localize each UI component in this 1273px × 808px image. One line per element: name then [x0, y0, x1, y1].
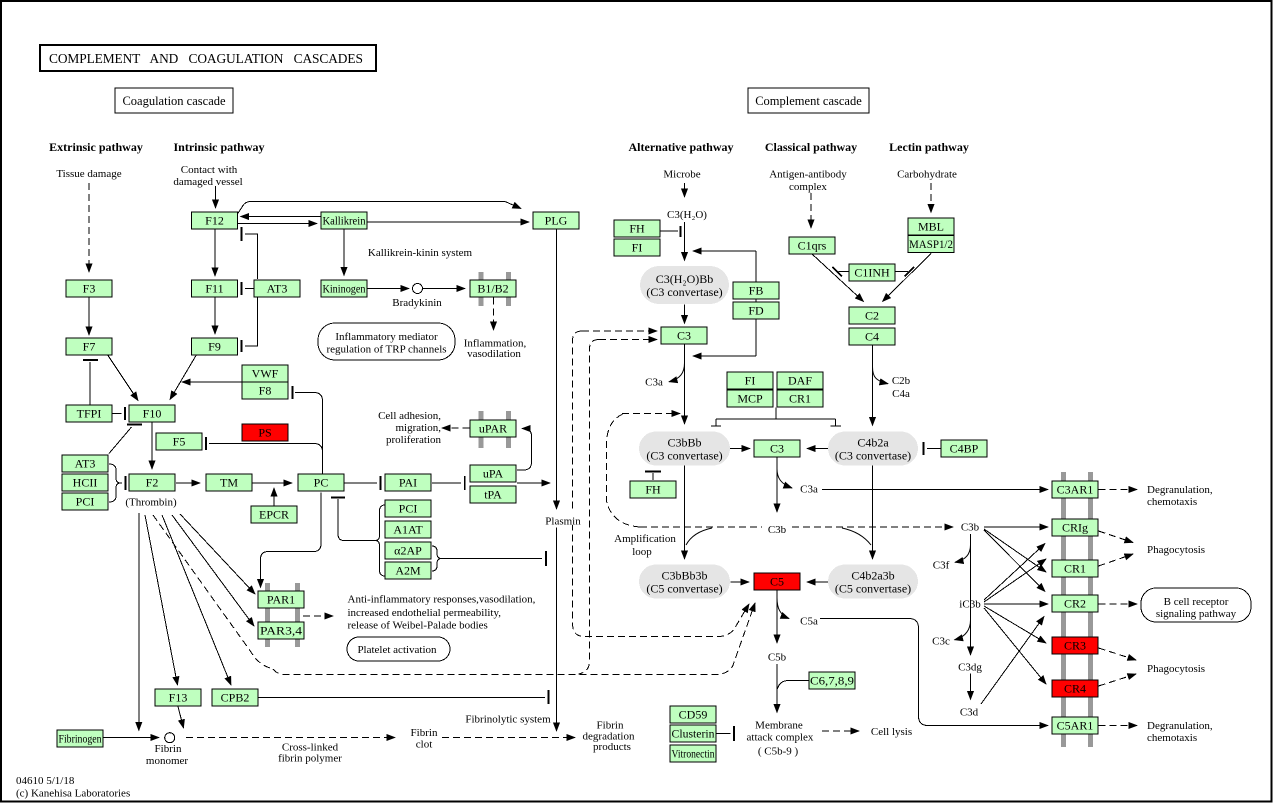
- label complex: [789, 181, 827, 193]
- label Complement cascade: [748, 88, 869, 113]
- label Fibrin (clot): [411, 727, 438, 739]
- svg-text:(C5 convertase): (C5 convertase): [835, 582, 911, 596]
- wire C3bBb3b to C5: [731, 581, 750, 583]
- inhibition PAI to uPA/tPA: [432, 476, 465, 490]
- box CPB2: [212, 689, 258, 706]
- wire carbohydrate to MBL (dashed): [930, 183, 932, 213]
- wire C3b to iC3b column (dashed): [792, 526, 953, 528]
- label C3b label: [768, 524, 787, 536]
- svg-text:Plasmin: Plasmin: [545, 516, 581, 528]
- wire C3b amplification arc (dashed): [607, 414, 641, 527]
- svg-text:Kallikrein-kinin system: Kallikrein-kinin system: [368, 247, 473, 259]
- wire C6,7,8,9 to C5b line: [778, 681, 810, 690]
- wire F3 to F7: [88, 298, 90, 336]
- wire iC3b to CR4: [984, 608, 1046, 684]
- svg-text:AT3: AT3: [267, 282, 288, 296]
- box PCI left: [62, 493, 108, 510]
- svg-text:C3f: C3f: [933, 560, 950, 572]
- wire iC3b to CRIg: [984, 544, 1045, 601]
- wire PLG to plasmin: [556, 230, 558, 510]
- svg-text:Cell adhesion,: Cell adhesion,: [378, 410, 441, 422]
- svg-text:C4a: C4a: [892, 388, 910, 400]
- label Classical pathway: [765, 140, 857, 154]
- box tPA: [470, 486, 516, 503]
- box C3 alt: [661, 327, 707, 344]
- svg-text:F5: F5: [173, 435, 186, 449]
- box Kininogen: [321, 280, 367, 297]
- box CR1 receptor: [1052, 560, 1098, 577]
- box F12: [192, 212, 238, 229]
- box HCII: [62, 474, 108, 491]
- box C6,7,8,9: [809, 672, 855, 689]
- svg-text:attack complex: attack complex: [747, 732, 814, 744]
- wire FB/FD to C3b line: [693, 355, 756, 357]
- label monomer: [146, 755, 188, 767]
- wire iC3b to C3f: [955, 545, 971, 562]
- svg-text:F2: F2: [146, 476, 159, 490]
- wire F12 to Kallikrein: [238, 223, 317, 225]
- box C4BP: [941, 440, 987, 457]
- box VWF: [242, 365, 288, 382]
- svg-text:monomer: monomer: [146, 755, 188, 767]
- label Degranulation 1a: [1147, 484, 1213, 496]
- box B1/B2 redraw: [470, 280, 516, 297]
- svg-text:FH: FH: [629, 222, 645, 236]
- svg-text:regulation of TRP channels: regulation of TRP channels: [326, 344, 446, 356]
- wire Kallikrein to Kininogen: [343, 230, 345, 276]
- note Platelet activation: [347, 637, 450, 661]
- box F10: [129, 405, 175, 422]
- box PAR3,4: [258, 622, 304, 639]
- svg-text:complex: complex: [789, 181, 827, 193]
- wire uPA/tPA to PLG-plasmin: [517, 482, 550, 484]
- label Alternative pathway: [629, 140, 734, 154]
- svg-text:C4BP: C4BP: [950, 442, 979, 456]
- wire C4 to C4b2a: [872, 346, 874, 426]
- svg-text:Microbe: Microbe: [663, 169, 700, 181]
- wire bradykinin to B1/B2: [423, 288, 465, 290]
- svg-text:C3: C3: [770, 442, 784, 456]
- box C3 mid: [754, 440, 800, 457]
- wire C3b join right: [842, 528, 871, 545]
- label C3a classical: [800, 484, 818, 496]
- box C4: [849, 328, 895, 345]
- svg-text:( C5b-9 ): ( C5b-9 ): [758, 746, 799, 758]
- svg-text:release of Weibel-Palade bodie: release of Weibel-Palade bodies: [348, 620, 488, 632]
- svg-text:F13: F13: [169, 691, 188, 705]
- box CR4: [1052, 680, 1098, 697]
- label Inflammation,: [464, 338, 527, 350]
- wire crosstalk A (dashed): [573, 331, 750, 637]
- wire TM to PC: [253, 482, 293, 484]
- svg-text:vasodilation: vasodilation: [467, 348, 521, 360]
- box AT3 lower: [62, 455, 108, 472]
- wire C3 to C3b: [776, 458, 778, 513]
- label C3d: [960, 707, 979, 719]
- label Fibrin (monomer): [155, 743, 182, 755]
- wire uPAR to cell adhesion (dashed): [442, 427, 470, 429]
- svg-text:C2: C2: [865, 309, 879, 323]
- svg-text:CPB2: CPB2: [221, 691, 250, 705]
- box DAF: [777, 372, 823, 389]
- wire PAR to anti-inflammatory (dashed): [303, 615, 333, 617]
- wire iC3b to CR3: [984, 606, 1046, 643]
- wire C3b to CR1: [984, 529, 1046, 572]
- box PAI: [385, 474, 431, 491]
- label Phagocytosis 1: [1147, 544, 1205, 556]
- svg-text:PAR3,4: PAR3,4: [260, 624, 302, 638]
- svg-text:C3AR1: C3AR1: [1057, 483, 1094, 497]
- box F11: [192, 280, 238, 297]
- svg-text:chemotaxis: chemotaxis: [1147, 732, 1197, 744]
- wire fibrin monomer to fibrin clot (dashed): [186, 737, 395, 739]
- box Fibrinogen: [57, 730, 103, 747]
- inhibition FH to C3bBb: [645, 472, 661, 481]
- svg-text:Kallikrein: Kallikrein: [323, 214, 366, 228]
- wire crosstalk B to C5 (dashed): [273, 603, 755, 675]
- label C5a: [800, 616, 818, 628]
- inhibition AT3/HCII/PCI to F2: [121, 476, 126, 490]
- label Cell lysis: [871, 726, 912, 738]
- wire VWF/F8 to F9-F10 reaction: [182, 381, 242, 383]
- label Coagulation cascade: [115, 88, 233, 113]
- wire F11 to F9: [214, 298, 216, 335]
- svg-text:CR2: CR2: [1064, 597, 1086, 611]
- wire C3b left segment (dashed): [640, 526, 762, 528]
- svg-text:Lectin pathway: Lectin pathway: [889, 140, 969, 154]
- wire C3(H2O) to C3(H2O)Bb: [684, 222, 686, 261]
- box MBL: [908, 218, 954, 235]
- svg-text:A1AT: A1AT: [393, 523, 423, 537]
- label Kallikrein-kinin system: [368, 247, 473, 259]
- label C3a alt: [645, 377, 663, 389]
- box C3AR1: [1052, 481, 1098, 498]
- box a2AP: [385, 542, 431, 559]
- svg-text:uPAR: uPAR: [479, 422, 507, 436]
- wire C5b to MAC: [776, 664, 778, 713]
- svg-text:(c) Kanehisa Laboratories: (c) Kanehisa Laboratories: [16, 788, 130, 800]
- wire crosstalk B (dashed): [579, 340, 600, 675]
- wire C3 to C3bBb: [684, 345, 686, 425]
- label Cross-linked: [282, 742, 339, 754]
- label map number: [16, 775, 75, 787]
- label products: [593, 741, 631, 753]
- svg-text:PCI: PCI: [399, 502, 418, 516]
- wire C3b to CR2: [984, 530, 1045, 592]
- box MASP1/2: [908, 236, 954, 253]
- wire C4 to C2b/C4a: [873, 367, 889, 384]
- svg-text:COMPLEMENT AND COAGULATION: COMPLEMENT AND COAGULATION CASCADES: [49, 51, 364, 66]
- svg-text:Fibrin: Fibrin: [155, 743, 182, 755]
- wire C3b to CRIg: [984, 526, 1048, 528]
- box PCI mid: [385, 500, 431, 517]
- wire crosstalk B to C3 (dashed): [599, 339, 657, 341]
- wire C3(H2O)Bb to C3: [684, 305, 686, 324]
- wire C4b2a to C4b2a3b: [872, 466, 874, 560]
- svg-text:Antigen-antibody: Antigen-antibody: [769, 169, 847, 181]
- svg-text:C1INH: C1INH: [854, 266, 890, 280]
- svg-text:FI: FI: [632, 241, 643, 255]
- svg-text:04610 5/1/18: 04610 5/1/18: [16, 775, 75, 787]
- note Inflammatory mediator regulation of TRP channels: [318, 323, 455, 360]
- box CR1 inhib: [777, 390, 823, 407]
- svg-text:C4b2a: C4b2a: [857, 436, 889, 450]
- inhibition AT3 to F9: [242, 298, 258, 353]
- membrane rail PAR left: [265, 583, 270, 647]
- svg-text:Degranulation,: Degranulation,: [1147, 720, 1213, 732]
- wire iC3b to CR2: [984, 603, 1048, 605]
- inhibition TFPI to F7: [83, 360, 98, 405]
- inhibition PC to PAI: [345, 476, 381, 490]
- svg-text:VWF: VWF: [252, 367, 279, 381]
- box MCP: [727, 390, 773, 407]
- wire thrombin to fibrin: [138, 513, 140, 731]
- box CD59: [670, 706, 716, 723]
- wire iC3b to CR1: [984, 559, 1046, 602]
- wire F7 to F10: [108, 356, 138, 401]
- box F8: [242, 382, 288, 399]
- box CR2: [1052, 595, 1098, 612]
- inhibition FH/FI to C3(H2O): [661, 226, 681, 237]
- wire CR1 to phagocytosis (dashed): [1099, 554, 1134, 566]
- svg-text:C3dg: C3dg: [958, 662, 982, 674]
- inhibition APC to F8: [293, 386, 323, 476]
- box FH lower: [630, 481, 676, 498]
- svg-text:PLG: PLG: [545, 214, 568, 228]
- label C3dg: [958, 662, 982, 674]
- label C3b right: [961, 522, 980, 534]
- svg-text:Anti-inflammatory responses,va: Anti-inflammatory responses,vasodilation…: [348, 594, 536, 606]
- wire C3AR1 to degranulation (dashed): [1099, 489, 1138, 491]
- wire antigen complex to C1qrs (dashed): [810, 193, 812, 228]
- svg-text:Vitronectin: Vitronectin: [672, 747, 715, 761]
- label C5b: [768, 652, 787, 664]
- svg-text:proliferation: proliferation: [386, 434, 441, 446]
- wire F2 to TM: [176, 482, 200, 484]
- label Contact with: [181, 164, 238, 176]
- label Cell adhesion,: [378, 410, 441, 422]
- label C4a: [892, 388, 910, 400]
- svg-text:Amplification: Amplification: [614, 533, 676, 545]
- inhibition AT3 to F10: [109, 425, 142, 454]
- membrane rail B1/B2 right: [506, 272, 511, 306]
- label proliferation: [386, 434, 441, 446]
- box C5: [754, 573, 800, 590]
- box FH upper: [614, 220, 660, 237]
- wire C5 to C5b: [776, 591, 778, 644]
- label Degranulation 2b: [1147, 732, 1197, 744]
- svg-text:(Thrombin): (Thrombin): [125, 497, 177, 509]
- label Degranulation 1b: [1147, 496, 1197, 508]
- svg-text:DAF: DAF: [788, 374, 812, 388]
- box F2: [129, 474, 175, 491]
- node fibrin monomer: [165, 733, 175, 743]
- wire thrombin to CPB2: [162, 515, 231, 685]
- box A1AT: [385, 521, 431, 538]
- box F13: [155, 689, 201, 706]
- svg-text:Coagulation cascade: Coagulation cascade: [122, 94, 226, 108]
- box C5AR1: [1052, 717, 1098, 734]
- inhibition a2AP/A2M to plasmin: [441, 551, 546, 566]
- inhibition Clusterin to MAC: [717, 726, 735, 741]
- wire C3a to C3AR1: [822, 489, 1048, 491]
- node bradykinin: [413, 284, 423, 294]
- wire Kallikrein to F12: [241, 216, 321, 218]
- svg-text:B cell receptor: B cell receptor: [1164, 596, 1229, 608]
- wire C3 to C3a: [669, 363, 685, 382]
- svg-text:Phagocytosis: Phagocytosis: [1147, 663, 1205, 675]
- svg-text:(C3 convertase): (C3 convertase): [835, 449, 911, 463]
- box PS: [242, 424, 288, 441]
- wire iC3b to C3c: [955, 620, 971, 640]
- svg-text:Intrinsic pathway: Intrinsic pathway: [173, 140, 264, 154]
- bracket PCI/A1AT/a2AP/A2M: [376, 505, 386, 576]
- svg-text:C3: C3: [677, 329, 691, 343]
- membrane rail membrane right: [1088, 472, 1093, 747]
- box PLG: [533, 212, 579, 229]
- svg-text:Membrane: Membrane: [755, 720, 803, 732]
- box TM: [206, 474, 252, 491]
- bracket FI/DAF/MCP/CR1 inhibitors: [711, 408, 841, 427]
- svg-text:FB: FB: [749, 284, 764, 298]
- svg-text:Complement cascade: Complement cascade: [755, 94, 862, 108]
- complex C3(H2O)Bb convertase: [640, 266, 729, 304]
- svg-text:CR4: CR4: [1064, 682, 1086, 696]
- note B cell receptor signaling pathway: [1141, 588, 1251, 622]
- box A2M: [385, 562, 431, 579]
- wire thrombin to F13: [145, 515, 178, 685]
- svg-text:C3c: C3c: [932, 636, 950, 648]
- svg-text:C1qrs: C1qrs: [798, 239, 827, 253]
- label iC3b: [959, 599, 981, 611]
- box FI upper: [614, 239, 660, 256]
- svg-text:Clusterin: Clusterin: [672, 727, 715, 741]
- label fibrin polymer: [278, 753, 342, 765]
- svg-text:products: products: [593, 741, 631, 753]
- svg-text:C4: C4: [865, 330, 879, 344]
- svg-text:C3b: C3b: [768, 524, 787, 536]
- label Phagocytosis 2: [1147, 663, 1205, 675]
- label degradation: [583, 731, 635, 743]
- box uPAR: [470, 420, 516, 437]
- wire MAC to cell lysis (dashed): [822, 730, 859, 732]
- label anti-inflammatory line2: [348, 607, 502, 619]
- wire tissue-damage to F3 (dashed): [88, 183, 90, 272]
- inhibition C4BP to C4b2a: [924, 442, 942, 455]
- box F5: [156, 433, 202, 450]
- wire C3b join left: [686, 528, 712, 545]
- svg-text:A2M: A2M: [395, 564, 421, 578]
- svg-text:Fibrinogen: Fibrinogen: [59, 732, 102, 746]
- svg-text:F8: F8: [259, 384, 272, 398]
- label Membrane: [755, 720, 803, 732]
- wire Fibrinogen to fibrin monomer: [104, 737, 160, 739]
- svg-text:CR1: CR1: [789, 392, 811, 406]
- svg-text:MASP1/2: MASP1/2: [909, 237, 953, 251]
- box Clusterin: [670, 725, 716, 742]
- label Fibrinolytic system: [465, 714, 551, 726]
- wire F10 to F2: [151, 423, 153, 470]
- svg-text:F7: F7: [83, 340, 96, 354]
- wire fibrin clot to degradation (dashed): [442, 737, 575, 739]
- svg-text:C6,7,8,9: C6,7,8,9: [810, 674, 854, 688]
- svg-text:PAR1: PAR1: [267, 593, 295, 607]
- wire C3b to iC3b: [970, 534, 972, 655]
- svg-text:Fibrinolytic system: Fibrinolytic system: [465, 714, 551, 726]
- label attack complex: [747, 732, 814, 744]
- label Microbe: [663, 169, 700, 181]
- svg-text:tPA: tPA: [484, 488, 502, 502]
- inhibition AT3 to F11: [242, 282, 255, 295]
- wire F12 to F11: [214, 230, 216, 277]
- svg-text:Kininogen: Kininogen: [323, 282, 366, 296]
- wire B1/B2 to inflammation (dashed): [493, 298, 495, 331]
- svg-text:(C3 convertase): (C3 convertase): [646, 449, 722, 463]
- svg-text:C5a: C5a: [800, 616, 818, 628]
- label Bradykinin: [392, 297, 442, 309]
- label Tissue damage: [56, 168, 121, 180]
- svg-text:(C5 convertase): (C5 convertase): [646, 582, 722, 596]
- membrane rail uPAR right: [506, 411, 511, 448]
- svg-text:FI: FI: [745, 374, 756, 388]
- bracket AT3/HCII/PCI: [109, 464, 121, 502]
- wire C1qrs to C2: [812, 254, 864, 302]
- svg-text:migration,: migration,: [395, 422, 441, 434]
- membrane rail uPAR left: [479, 411, 484, 448]
- svg-text:FH: FH: [645, 483, 661, 497]
- wire C4b2a3b to C5: [807, 581, 828, 583]
- wire MASP to C2: [883, 254, 932, 302]
- svg-text:Contact with: Contact with: [181, 164, 238, 176]
- svg-text:Alternative pathway: Alternative pathway: [629, 140, 734, 154]
- box C1qrs: [789, 237, 835, 254]
- wire thrombin to PAR1: [180, 514, 255, 594]
- label anti-inflammatory line1: [348, 594, 536, 606]
- box TFPI: [66, 405, 112, 422]
- svg-text:C3d: C3d: [960, 707, 979, 719]
- wire FB/FD to C3(H2O) line: [693, 250, 756, 252]
- wire contact to F12: [215, 186, 217, 208]
- label Fibrin (degradation): [597, 720, 624, 732]
- label C3f: [933, 560, 950, 572]
- label C2b: [892, 375, 911, 387]
- wire C3 to C3a right: [777, 469, 792, 488]
- svg-text:Bradykinin: Bradykinin: [392, 297, 442, 309]
- wire PC to PAR1: [261, 493, 322, 588]
- wire thrombin to PAR3,4: [172, 515, 254, 626]
- svg-text:C3a: C3a: [800, 484, 818, 496]
- label vasodilation: [467, 348, 521, 360]
- wire C4b2a to C3 mid: [807, 448, 828, 450]
- svg-text:C3(H₂O): C3(H₂O): [667, 209, 707, 221]
- wire iC3b to C3dg: [970, 674, 972, 700]
- complex C3bBb3b convertase: [639, 565, 730, 599]
- svg-text:uPA: uPA: [483, 467, 504, 481]
- wire FB/FD stem: [755, 251, 757, 356]
- svg-text:Inflammatory mediator: Inflammatory mediator: [335, 331, 438, 343]
- inhibition APC to F5: [206, 437, 323, 452]
- box uPA: [470, 465, 516, 482]
- svg-text:CR3: CR3: [1064, 639, 1086, 653]
- svg-text:(C3 convertase): (C3 convertase): [646, 285, 722, 299]
- svg-text:damaged vessel: damaged vessel: [173, 176, 242, 188]
- wire CR3 to phagocytosis (dashed): [1099, 648, 1137, 660]
- wire F13 to fibrin monomer: [178, 707, 184, 729]
- svg-text:Classical pathway: Classical pathway: [765, 140, 857, 154]
- box Vitronectin: [670, 745, 716, 762]
- wire C5AR1 to degranulation (dashed): [1099, 725, 1138, 727]
- svg-text:HCII: HCII: [73, 476, 98, 490]
